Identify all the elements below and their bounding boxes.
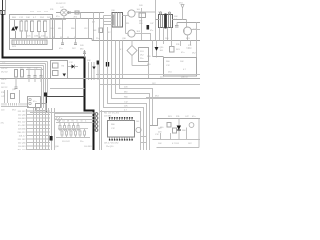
wire bus y78 (0, 78, 200, 80)
svg-text:▭▭: ▭▭ (44, 11, 48, 13)
wire IC edge (26, 109, 28, 150)
node bus junction (0, 10, 3, 12)
resistor R902 (173, 128, 177, 133)
diode D610 (68, 65, 78, 69)
diode D641 (155, 41, 159, 58)
wire vert x122 (122, 41, 124, 79)
label D620 (174, 16, 178, 18)
box jack J601 (28, 97, 41, 108)
wire diamond top (131, 41, 133, 46)
connector pins (95, 113, 98, 132)
svg-text:D5 1K2 22: D5 1K2 22 (56, 3, 66, 5)
label left R (1, 123, 4, 125)
wire rail y147 (157, 147, 200, 149)
label y97 a (155, 96, 159, 98)
wire bus vert 3 (39, 108, 41, 150)
svg-text:47u: 47u (33, 101, 36, 103)
label IC640 a (140, 51, 145, 53)
svg-text:D51 1K2: D51 1K2 (18, 111, 27, 113)
label drop c (71, 28, 74, 30)
transformer terminal 2 (169, 12, 171, 14)
label mid br (155, 134, 160, 136)
label D641 (160, 47, 165, 49)
label pin 1 (18, 111, 27, 113)
label box b (166, 65, 171, 67)
wire ladder top (56, 122, 94, 124)
wire bus vert 2 (36, 108, 38, 150)
wire hline y112 (30, 112, 94, 114)
label pin 12 (18, 149, 27, 151)
wire bus vert 1 (33, 108, 35, 150)
hatch marks (55, 116, 62, 122)
wire stub2 (140, 142, 147, 144)
capacitor C607 (44, 20, 47, 39)
wire bus vert 4 (42, 108, 44, 150)
resistor ladder a5 (77, 123, 79, 132)
label mid 90 (92, 22, 96, 24)
wire corner 5 (104, 41, 144, 151)
component X650 (11, 94, 15, 99)
wire bus left4 (0, 67, 42, 69)
wire conn vert2 (101, 110, 103, 150)
wire vert right edge (196, 23, 198, 41)
label corner 2 (124, 92, 128, 94)
wire dark branch (47, 97, 85, 114)
wire Q602 out (135, 34, 150, 41)
svg-text:D20: D20 (50, 28, 53, 30)
label IC801 bot2 (106, 146, 113, 148)
label ladder 4 (84, 146, 92, 148)
label corner 3 (124, 97, 129, 99)
wire T in (156, 19, 160, 21)
label bottom row2 (34, 36, 39, 38)
label lcol a (1, 92, 5, 94)
connector CN601 (12, 40, 47, 45)
wire vert x155 (155, 0, 157, 41)
label corner 1 (124, 87, 129, 89)
label drops (87, 60, 91, 62)
resistor R610 (75, 11, 79, 14)
svg-text:100: 100 (136, 121, 139, 123)
label box d (183, 69, 187, 71)
capacitor C651 (33, 70, 36, 83)
label right of DIP (136, 121, 139, 123)
wire corner 6 (100, 41, 141, 151)
svg-text:680: 680 (58, 28, 61, 30)
label corner 6 (124, 110, 128, 112)
wire rail y139 (153, 139, 201, 141)
node tick (67, 37, 69, 39)
wire bus left1 (0, 61, 48, 63)
wire drop x75 (75, 19, 77, 39)
wire bus vert 5 (45, 108, 47, 150)
label pin 8 (19, 135, 27, 137)
label under comb1 (1, 110, 5, 112)
svg-text:R11 C47: R11 C47 (18, 149, 27, 150)
resistor R615 (99, 28, 103, 33)
capacitor C615 (97, 61, 100, 81)
node tick r3 (190, 41, 192, 46)
wire drop x93 (93, 13, 95, 41)
label pin 10 (18, 142, 27, 144)
wire step (150, 119, 200, 126)
transformer T601 primary (159, 15, 165, 28)
wire comp link (15, 77, 17, 84)
wire corner 4 (108, 41, 147, 151)
box lower left (36, 104, 47, 111)
capacitor C650 (27, 70, 30, 83)
label between Q (126, 23, 129, 25)
wire bend2 (45, 64, 47, 109)
wire AC input 2 (5, 0, 7, 11)
svg-text:4.7 D51: 4.7 D51 (172, 143, 180, 145)
label box c (180, 61, 184, 63)
wire bus y74 (96, 74, 200, 76)
capacitor C608 (69, 11, 70, 14)
label IC640 c (140, 58, 143, 60)
wire pin2 (104, 21, 113, 23)
svg-text:Q30 10: Q30 10 (181, 77, 188, 79)
wire pin line 6 (27, 128, 51, 130)
label right T cluster (150, 23, 153, 32)
node tick (39, 37, 41, 39)
wire pair y97 (146, 97, 200, 99)
svg-text:D51 1K2: D51 1K2 (18, 139, 27, 141)
label drop e (93, 30, 97, 32)
wire comp drop2 (49, 20, 51, 39)
label lrow6 (1, 87, 8, 89)
wire varistor (15, 20, 16, 38)
svg-text:10: 10 (81, 121, 83, 123)
svg-text:1K2 22: 1K2 22 (1, 87, 8, 89)
wire pin line 3 (27, 117, 51, 119)
label br top4 (192, 116, 195, 118)
wire pin line 1 (27, 110, 51, 112)
label lrow7 (12, 89, 17, 91)
label pin 3 (18, 118, 26, 120)
wire stub1 (140, 136, 147, 138)
label ladder 1 (62, 141, 71, 143)
pin row comb (2, 103, 27, 106)
IC801 top pins (109, 117, 133, 121)
wire bend1 (47, 62, 49, 97)
wire bus left2 (0, 63, 46, 65)
label L601 (12, 17, 17, 19)
label under connector (12, 46, 17, 48)
wire drop a (88, 62, 90, 80)
box inner small 2 (53, 71, 59, 76)
wire bend4 (41, 68, 43, 109)
label pin 11 (18, 146, 26, 148)
label rail r4 (186, 38, 190, 40)
label drop d (84, 28, 87, 30)
label ladder 3 (55, 146, 60, 148)
wire vert l1 (4, 90, 6, 103)
box inner small (53, 63, 59, 68)
transistor Q603 (184, 27, 192, 35)
label D621 (174, 19, 178, 21)
wire br drop3 (186, 128, 188, 140)
resistor ladder b1 (61, 128, 63, 138)
label box e (168, 72, 173, 74)
label R621 (139, 21, 143, 23)
label IC801 bot1 (104, 143, 118, 145)
box regulator IC640 (139, 48, 149, 62)
wire pin line 11 (27, 145, 51, 147)
wire pin line 2 (27, 114, 51, 116)
svg-text:47u: 47u (181, 52, 184, 54)
label Q602 (137, 31, 141, 33)
wire vert x107 (107, 27, 109, 41)
varistor TH1 arrows (11, 27, 18, 31)
label IC801 top1 (104, 113, 119, 115)
resistor R641 (170, 41, 175, 53)
label rail r1 (96, 38, 99, 40)
label F601 (30, 11, 34, 13)
label IC640 b (140, 55, 144, 57)
wire pin line 4 (27, 121, 51, 123)
resistor ladder b3 (70, 128, 72, 138)
wire vert x111 (111, 27, 113, 41)
label left of box (147, 56, 152, 66)
label C601 (44, 11, 48, 13)
wire bus vert 7 (51, 108, 53, 150)
wire T drop 3 (167, 28, 169, 41)
wire drop x88 (88, 19, 90, 39)
label D640 (120, 49, 124, 51)
box power supply sub (164, 58, 197, 77)
svg-text:C47 47: C47 47 (1, 68, 8, 70)
label C611 (59, 48, 62, 50)
module IC601 (112, 13, 123, 28)
label R641 (176, 49, 180, 51)
wire T out1 (172, 20, 187, 28)
label pin 6 (18, 128, 26, 130)
wire cap hang (20, 68, 44, 70)
box degauss unit (10, 15, 53, 50)
capacitor C612 (74, 39, 77, 45)
label bottom row1 (27, 36, 31, 38)
label lrow5 (1, 83, 6, 85)
label small 57 (56, 16, 59, 18)
svg-text:R11 C47 47u 2K2: R11 C47 47u 2K2 (104, 113, 119, 115)
svg-text:R6: R6 (72, 121, 74, 123)
wire drop x80 (80, 13, 82, 19)
label br text2 (158, 132, 161, 134)
svg-text:100 3K3: 100 3K3 (84, 146, 92, 148)
transformer T601 secondary (167, 15, 173, 28)
wire Q601 out (135, 11, 155, 13)
svg-text:D2: D2 (63, 121, 65, 123)
transformer T601 core (165, 14, 166, 29)
label T601 (158, 12, 163, 14)
wire pin line 8 (27, 135, 51, 137)
label IC801 top2 (104, 116, 111, 118)
wire ladder mid (58, 128, 88, 130)
wire B+ rail (56, 12, 104, 14)
resistor R901 (167, 123, 171, 128)
resistor ladder b2 (66, 128, 68, 138)
wire right vert ext (196, 41, 198, 58)
label top edge mid (56, 3, 66, 5)
svg-text:10K: 10K (26, 17, 30, 19)
node tick (53, 37, 55, 39)
wire T drop 1 (159, 28, 161, 41)
label br text1 (158, 128, 161, 130)
pin circle 2 (29, 102, 31, 104)
wire pin3 (104, 24, 113, 26)
svg-text:D20 680: D20 680 (18, 128, 26, 130)
label IC801 in2 (111, 128, 116, 130)
wire vert x152 (152, 41, 154, 57)
box relay unit (51, 61, 68, 80)
svg-text:2K2 D2: 2K2 D2 (1, 72, 9, 74)
IC801 body (108, 121, 135, 138)
wire vert l3 (19, 90, 21, 103)
resistor R651 (21, 70, 24, 78)
wire br drop1 (160, 133, 162, 140)
wire drop b (91, 62, 93, 80)
diode D612 (92, 62, 95, 80)
svg-text:22n: 22n (140, 58, 143, 60)
label C604 (47, 17, 52, 19)
label pin 9 (18, 139, 27, 141)
node tick (46, 37, 48, 39)
plug P1 (0, 11, 5, 15)
label br bot2 (172, 143, 180, 145)
svg-text:C47: C47 (150, 23, 153, 25)
label bottom row3 (41, 36, 45, 38)
wire conn line2 (55, 116, 94, 118)
svg-text:47u: 47u (150, 30, 153, 32)
label rail r3 (165, 38, 169, 40)
svg-text:R60: R60 (71, 28, 74, 30)
capacitor C652 (39, 70, 42, 83)
label C602 (26, 17, 30, 19)
wire corner 2 (116, 41, 150, 151)
label R902 (182, 130, 187, 132)
wire T drop 4 (171, 28, 173, 41)
svg-text:47u: 47u (1, 123, 4, 125)
wire conn line1 (55, 113, 94, 115)
svg-text:C12: C12 (84, 28, 87, 30)
wire vert l2 (7, 90, 9, 103)
label drop a (50, 28, 53, 30)
label lrow4 (1, 79, 7, 81)
capacitor C655 polarized (44, 93, 47, 97)
IC801 bottom pins (109, 137, 133, 141)
wire br drop2 (170, 133, 172, 140)
label br top2 (176, 116, 180, 118)
label IC801 in1 (111, 124, 116, 126)
wire pin line 12 (27, 149, 51, 151)
wire bus vert 6 (48, 108, 50, 150)
svg-text:10K 4.7: 10K 4.7 (19, 135, 27, 137)
label cluster right (188, 45, 193, 50)
label br bot1 (158, 143, 162, 145)
node tick (74, 37, 76, 39)
label br top3 (185, 116, 190, 118)
wire pin1b (104, 18, 113, 20)
resistor ladder b4 (75, 128, 77, 138)
label R622 (139, 23, 144, 25)
label lrow2 (1, 68, 8, 70)
capacitor C621 (175, 23, 179, 28)
svg-text:R60 C12: R60 C12 (18, 132, 27, 134)
transistor Q601 (128, 10, 135, 17)
capacitor C660 polarized (50, 136, 53, 141)
svg-text:▭▭: ▭▭ (37, 11, 41, 13)
wire corner 1 (120, 41, 153, 126)
label under comb2 (12, 110, 16, 112)
label br top1 (168, 116, 172, 118)
capacitor C611 (61, 39, 64, 45)
bridge diamond D640 (127, 46, 137, 56)
label R620 cluster (139, 5, 144, 7)
label pin 7 (18, 132, 27, 134)
wire mid rail right (92, 39, 200, 41)
svg-text:47u: 47u (192, 116, 195, 118)
svg-text:22n: 22n (80, 141, 83, 143)
label lower left box (37, 108, 41, 110)
svg-text:47u: 47u (59, 48, 62, 50)
svg-text:22n Q30: 22n Q30 (18, 114, 27, 116)
wire rail 18 (50, 18, 112, 20)
wire mid rail left (10, 38, 93, 40)
label J601 (33, 101, 36, 103)
label y84 left (152, 83, 156, 85)
transistor Q901 (189, 123, 194, 128)
wire rect drop (63, 16, 65, 19)
bridge rectifier D601 (61, 9, 68, 16)
svg-text:22n Q30: 22n Q30 (106, 146, 113, 148)
label D610 (69, 62, 74, 64)
resistor ladder a4 (73, 123, 75, 132)
label relay (62, 66, 65, 68)
transistor Q801 (136, 127, 141, 132)
label D601 top (60, 7, 65, 9)
node tick (60, 37, 62, 39)
label fuse F602 (50, 9, 54, 11)
label IC601 (111, 10, 116, 12)
capacitor C653 (14, 84, 17, 88)
svg-text:R11 C47: R11 C47 (18, 121, 27, 123)
label R610 (74, 17, 78, 19)
resistor R621 (139, 13, 146, 18)
wire vert x148 (148, 62, 150, 79)
label cluster right2 (181, 52, 196, 55)
label R602 (40, 17, 45, 19)
wire pin line 7 (27, 131, 51, 133)
wire bend3 (43, 66, 45, 109)
resistor ladder a2 (64, 123, 66, 132)
transformer terminal 1 (160, 12, 162, 14)
resistor ladder a1 (59, 123, 61, 132)
capacitor C606 (38, 20, 41, 39)
wire bus y84 (100, 84, 200, 86)
label D901 (160, 127, 164, 129)
label Q601 (137, 9, 141, 11)
resistor ladder a3 (68, 123, 70, 132)
wire ladder bottom (56, 137, 90, 139)
wire vert x54 (54, 108, 56, 150)
label pin 4 (18, 121, 27, 123)
transistor Q602 (128, 30, 135, 37)
node tick r1 (163, 41, 165, 45)
wire pin line 5 (27, 124, 51, 126)
label rail r2 (122, 38, 127, 40)
wire pin1 (104, 15, 113, 17)
